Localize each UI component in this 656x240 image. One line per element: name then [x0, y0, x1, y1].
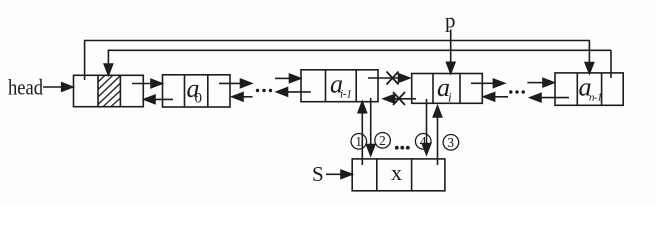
svg-text:0: 0: [195, 91, 203, 107]
circle step 3: [443, 135, 459, 151]
svg-text:4: 4: [420, 134, 427, 149]
wire s->next up arrow (step 3): [437, 117, 439, 165]
wire node1 next -> node2: [132, 83, 152, 85]
svg-text:1: 1: [355, 134, 362, 149]
X mark on forward link: [387, 72, 399, 85]
wire s->prior up arrow (step 1): [361, 112, 363, 165]
wire dots2 -> node5 forward: [527, 82, 543, 84]
circle step 1: [351, 134, 367, 150]
wire node5 prior -> dots2: [541, 97, 569, 99]
wire node4 next -> dots2: [471, 82, 494, 84]
node s box: [352, 159, 445, 191]
svg-text:n-1: n-1: [589, 92, 602, 104]
svg-text:2: 2: [379, 133, 386, 148]
circle step 2: [375, 133, 391, 149]
hatching of head node reserved cell: [98, 75, 120, 106]
wire node4 prior -> node3 (broken): [395, 98, 417, 100]
wire last->next top line back to head node: [108, 50, 611, 78]
svg-text:p: p: [445, 9, 456, 33]
wire head label arrow: [43, 86, 62, 88]
svg-text:3: 3: [447, 135, 454, 150]
arrowhead head->node1: [62, 83, 73, 91]
dots between circles 2 and 4: [395, 146, 410, 150]
wire dots -> node3 forward: [275, 77, 290, 79]
svg-text:i-1: i-1: [340, 89, 352, 101]
svg-text:x: x: [391, 160, 402, 185]
wire p->prior down arrow (step 4): [426, 99, 428, 144]
node a_{i-1} box: [301, 70, 378, 102]
wire head->prior top line to last node: [85, 41, 590, 81]
wire node3 prior -> dots: [288, 91, 311, 93]
dots between node4 and node5: [509, 90, 525, 93]
wire s label arrow: [326, 173, 342, 175]
X mark on backward link: [393, 92, 405, 105]
wire dots2 -> node4 prior direction: [495, 96, 509, 98]
svg-text:S: S: [312, 162, 324, 186]
wire node2 next -> dots: [219, 82, 241, 84]
node head (first node box): [74, 75, 144, 106]
wire dots -> node2 prior direction: [242, 96, 253, 98]
circle step 4: [415, 134, 431, 150]
dots between node2 and node3: [256, 89, 272, 92]
arrowhead of p into a_i node top: [447, 62, 455, 73]
wire node3 next -> node4 (broken): [368, 77, 399, 79]
wire node2 prior -> node1: [155, 98, 173, 100]
arrowhead into head node hatched cell top: [104, 64, 112, 75]
node a0 box: [163, 75, 231, 107]
node a_i box: [412, 74, 483, 104]
node a_{n-1} box: [555, 73, 623, 105]
arrowhead into a_{n-1} node cell2 top: [585, 63, 593, 74]
wire a_{i-1}->next down arrow (step 2): [370, 98, 372, 145]
pointer p vertical wire: [450, 30, 452, 64]
svg-text:i: i: [448, 90, 452, 105]
svg-text:head: head: [8, 75, 43, 100]
